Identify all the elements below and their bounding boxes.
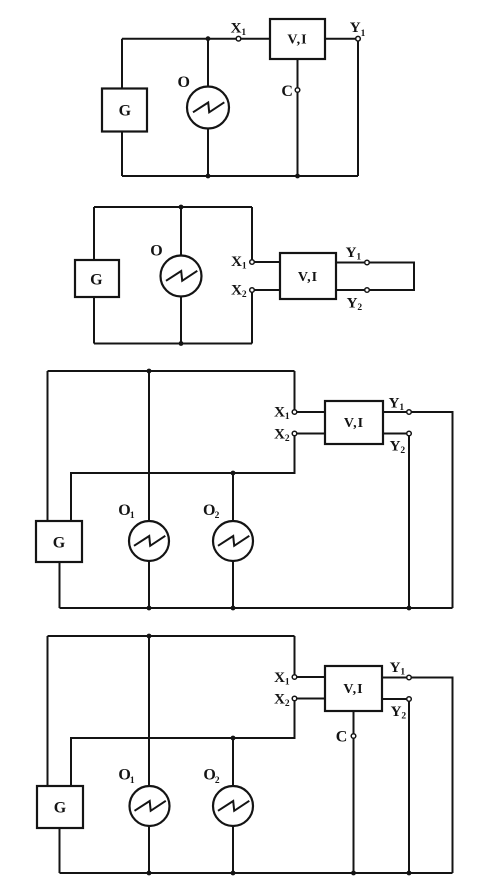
svg-text:X: X <box>231 283 242 299</box>
svg-text:X: X <box>274 692 285 708</box>
svg-text:1: 1 <box>400 668 405 678</box>
svg-text:V,I: V,I <box>343 682 363 697</box>
svg-text:1: 1 <box>361 29 366 39</box>
svg-text:X: X <box>231 254 242 270</box>
svg-text:G: G <box>119 102 132 119</box>
svg-text:O: O <box>177 74 189 91</box>
svg-text:2: 2 <box>242 290 247 300</box>
svg-text:2: 2 <box>400 446 405 456</box>
svg-text:1: 1 <box>130 776 135 786</box>
svg-text:C: C <box>281 83 293 100</box>
svg-text:2: 2 <box>215 511 220 521</box>
svg-text:G: G <box>54 799 67 816</box>
svg-text:1: 1 <box>241 28 246 38</box>
svg-text:2: 2 <box>285 699 290 709</box>
svg-text:Y: Y <box>390 660 401 676</box>
svg-text:G: G <box>53 534 66 551</box>
svg-text:2: 2 <box>215 776 220 786</box>
svg-text:Y: Y <box>347 296 358 312</box>
svg-text:1: 1 <box>285 412 290 422</box>
svg-text:X: X <box>274 405 285 421</box>
svg-text:2: 2 <box>285 434 290 444</box>
svg-text:Y: Y <box>390 439 401 455</box>
svg-text:1: 1 <box>130 511 135 521</box>
svg-text:X: X <box>274 427 285 443</box>
svg-text:Y: Y <box>391 704 402 720</box>
svg-text:O: O <box>203 502 215 519</box>
svg-text:Y: Y <box>346 245 357 261</box>
svg-text:Y: Y <box>350 20 361 36</box>
svg-text:1: 1 <box>356 253 361 263</box>
svg-text:G: G <box>90 271 103 288</box>
svg-text:2: 2 <box>401 712 406 722</box>
svg-text:X: X <box>274 670 285 686</box>
svg-text:V,I: V,I <box>344 416 364 431</box>
svg-text:1: 1 <box>399 403 404 413</box>
svg-text:X: X <box>231 21 242 37</box>
svg-text:O: O <box>118 502 130 519</box>
svg-text:1: 1 <box>242 262 247 272</box>
svg-text:2: 2 <box>357 303 362 313</box>
svg-text:1: 1 <box>285 678 290 688</box>
svg-text:C: C <box>336 729 348 746</box>
svg-text:V,I: V,I <box>287 33 307 48</box>
svg-text:Y: Y <box>389 396 400 412</box>
svg-text:O: O <box>150 242 162 259</box>
svg-text:V,I: V,I <box>298 270 318 285</box>
